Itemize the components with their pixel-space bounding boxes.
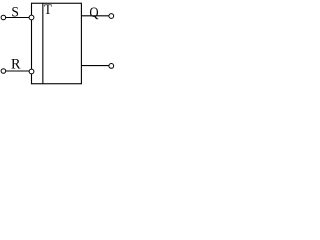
node S junction pin	[29, 15, 34, 20]
svg-text:R: R	[11, 56, 21, 72]
terminal Q output	[109, 14, 114, 19]
node R junction pin	[29, 69, 34, 74]
wire Q output	[81, 15, 108, 17]
wire S input	[6, 17, 30, 19]
terminal Q-bar output	[109, 64, 114, 69]
flip-flop U1 inner divider line	[42, 3, 44, 84]
svg-text:T: T	[44, 2, 52, 18]
terminal R input	[1, 69, 6, 74]
wire R input	[6, 70, 29, 72]
svg-text:Q: Q	[89, 5, 98, 21]
terminal S input	[1, 15, 6, 20]
wire Q-bar output	[81, 65, 108, 67]
flip-flop U1 body	[32, 3, 82, 84]
svg-text:S: S	[11, 4, 19, 21]
